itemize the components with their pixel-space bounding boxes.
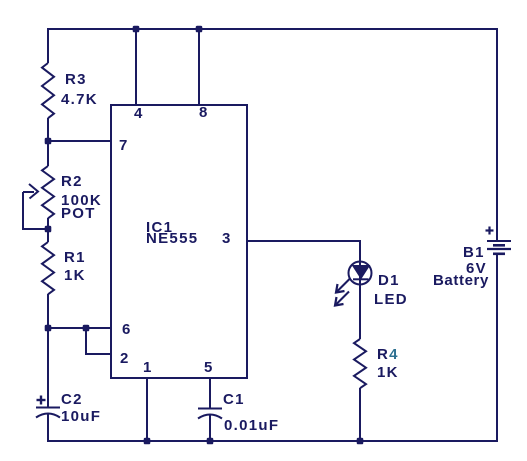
svg-text:1K: 1K <box>64 267 86 284</box>
capacitor C1 <box>198 409 222 419</box>
wire top bus <box>47 28 498 30</box>
svg-text:8: 8 <box>199 104 209 121</box>
wire LED to R4 <box>359 284 361 339</box>
wire R2 bottom lead to node <box>47 218 49 230</box>
capacitor C2 <box>36 408 60 418</box>
IC1 NE555 box outline <box>111 105 247 378</box>
wire pin6 lead <box>47 327 111 329</box>
svg-text:10uF: 10uF <box>61 408 101 425</box>
wire pin2 branch <box>86 328 111 354</box>
svg-text:1K: 1K <box>377 364 399 381</box>
wire pin3 corner down to LED <box>359 241 361 262</box>
wire node to R2 top <box>47 141 49 166</box>
wire bottom bus <box>47 440 498 442</box>
wire C1 bottom to bottom bus <box>209 415 211 441</box>
LED D1 symbol <box>349 262 372 286</box>
plus sign of battery <box>486 227 494 235</box>
svg-text:NE555: NE555 <box>146 230 198 247</box>
svg-text:5: 5 <box>204 359 214 376</box>
svg-text:0.01uF: 0.01uF <box>224 417 279 434</box>
wire C2 bottom to bottom bus corner <box>47 414 49 442</box>
wire pin6 node down to C2 <box>47 328 49 407</box>
svg-text:7: 7 <box>119 137 129 154</box>
svg-text:LED: LED <box>374 291 408 308</box>
svg-text:1: 1 <box>143 359 153 376</box>
wire left rail upper (top bus to R3) <box>47 28 49 63</box>
svg-text:POT: POT <box>61 205 96 222</box>
wire pin1 lead <box>146 378 148 441</box>
svg-text:R3: R3 <box>65 71 87 88</box>
wire right rail upper (top bus to battery) <box>496 28 498 241</box>
resistor R4 <box>354 339 366 388</box>
svg-text:C2: C2 <box>61 391 83 408</box>
node junction top bus pin8 <box>196 26 203 33</box>
LED light arrow 1 <box>336 279 350 293</box>
svg-text:2: 2 <box>120 350 130 367</box>
wire R1 bottom to pin6 node <box>47 294 49 328</box>
node junction bottom bus C1 <box>207 438 214 445</box>
node junction R2/R1/wiper <box>45 226 52 233</box>
node junction bottom bus pin1 <box>144 438 151 445</box>
svg-text:R1: R1 <box>64 249 86 266</box>
svg-text:R2: R2 <box>61 173 83 190</box>
node junction top bus pin4 <box>133 26 140 33</box>
pot wiper arrow of R2 <box>23 184 48 230</box>
node junction bottom bus R4 <box>357 438 364 445</box>
svg-text:4.7K: 4.7K <box>61 91 98 108</box>
wire R4 bottom to bottom bus <box>359 388 361 441</box>
node junction pin6/pin2 branch <box>83 325 90 332</box>
wire node to R1 top <box>47 229 49 242</box>
svg-text:4: 4 <box>134 105 144 122</box>
node junction R1/pin6 <box>45 325 52 332</box>
svg-text:R4: R4 <box>377 346 399 363</box>
svg-text:B1: B1 <box>463 244 485 261</box>
wire R3 bottom lead to node <box>47 118 49 141</box>
plus sign of C2 <box>37 396 46 405</box>
svg-text:3: 3 <box>222 230 232 247</box>
node junction R3/R2/pin7 <box>45 138 52 145</box>
LED light arrow 2 <box>335 292 349 306</box>
wire pin3 lead <box>247 240 361 242</box>
battery B1 plates <box>487 241 511 254</box>
svg-text:Battery: Battery <box>433 272 489 289</box>
svg-text:D1: D1 <box>378 272 400 289</box>
wire right rail lower (battery to bottom bus) <box>496 254 498 442</box>
wire pin8 lead <box>198 29 200 105</box>
wire pin5 lead to C1 <box>209 378 211 408</box>
resistor R2 <box>42 166 54 218</box>
resistor R1 <box>42 242 54 294</box>
wire pin4 lead <box>135 29 137 105</box>
wire pin7 lead <box>47 140 111 142</box>
svg-text:C1: C1 <box>223 391 245 408</box>
svg-text:6: 6 <box>122 321 132 338</box>
resistor R3 <box>42 63 54 118</box>
